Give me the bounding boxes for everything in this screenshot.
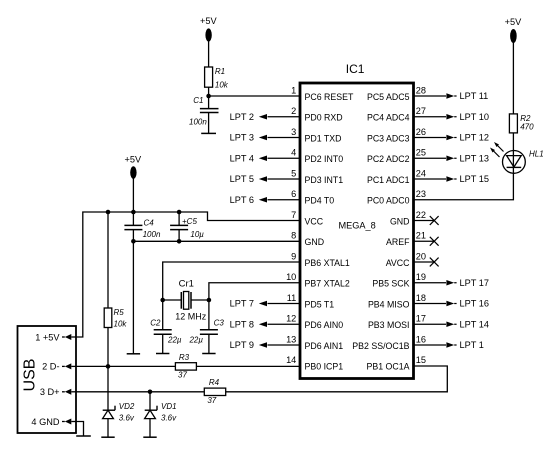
wire C5 to GND bus	[178, 230, 180, 242]
svg-text:GND: GND	[390, 216, 410, 226]
svg-text:PC0 ADC0: PC0 ADC0	[367, 196, 410, 206]
resistor R1	[205, 67, 213, 87]
svg-text:C4: C4	[144, 218, 155, 227]
node VCC bus / R5 junction	[106, 210, 111, 215]
svg-text:LPT 9: LPT 9	[230, 340, 254, 350]
svg-text:11: 11	[287, 293, 297, 303]
svg-text:PD4 T0: PD4 T0	[305, 196, 335, 206]
wire R4 to pin 15 (under IC)	[226, 366, 448, 392]
svg-text:PD0 RXD: PD0 RXD	[305, 113, 343, 123]
svg-text:10k: 10k	[114, 320, 128, 329]
svg-text:R4: R4	[209, 378, 220, 387]
svg-text:21: 21	[416, 231, 426, 241]
svg-text:PD6 AIN1: PD6 AIN1	[305, 341, 344, 351]
svg-text:6: 6	[291, 189, 296, 199]
svg-text:18: 18	[416, 293, 426, 303]
node GND bus / C4 junction	[131, 239, 136, 244]
svg-text:4 GND: 4 GND	[31, 417, 59, 427]
power +5V terminal (top right)	[505, 17, 522, 43]
svg-text:LPT 12: LPT 12	[460, 133, 489, 143]
wire GND bus drop to ground	[132, 241, 134, 353]
svg-text:PC6 RESET: PC6 RESET	[305, 92, 355, 102]
svg-text:LPT 14: LPT 14	[460, 319, 489, 329]
svg-text:5: 5	[291, 168, 296, 178]
power +5V terminal (middle)	[124, 155, 141, 179]
svg-text:PD3 INT1: PD3 INT1	[305, 175, 344, 185]
svg-text:22µ: 22µ	[188, 335, 203, 344]
wire D line to zener VD1	[149, 392, 151, 410]
pin 21 no-connect stub and X	[414, 237, 439, 246]
svg-text:2 D-: 2 D-	[42, 362, 59, 372]
svg-text:LPT 5: LPT 5	[230, 174, 254, 184]
svg-text:17: 17	[416, 314, 426, 324]
svg-text:26: 26	[416, 127, 426, 137]
wire pin 19 to LPT 17 with arrow	[414, 280, 457, 286]
svg-text:23: 23	[416, 189, 426, 199]
svg-text:37: 37	[207, 396, 216, 405]
svg-text:3: 3	[291, 127, 296, 137]
wire GND bus to pin 8	[133, 240, 300, 242]
wire VCC bus to R5	[107, 212, 109, 308]
wire pin 26 to LPT 12 with arrow	[414, 135, 457, 141]
svg-text:PC1 ADC1: PC1 ADC1	[367, 175, 410, 185]
svg-text:C2: C2	[150, 319, 161, 328]
wire node to C1	[208, 96, 210, 108]
svg-text:22: 22	[416, 210, 426, 220]
svg-text:PD2 INT0: PD2 INT0	[305, 154, 344, 164]
svg-text:PC5 ADC5: PC5 ADC5	[367, 92, 410, 102]
wire C1 to ground	[208, 113, 210, 134]
capacitor C2	[154, 330, 172, 334]
svg-text:R3: R3	[179, 353, 190, 362]
ground (GND bus)	[127, 353, 140, 355]
svg-text:VCC: VCC	[305, 216, 324, 226]
node D+ / VD1 junction	[148, 390, 153, 395]
wire +5V terminal down to VCC bus	[132, 179, 134, 213]
USB pin arrow 1 +5V	[62, 334, 76, 340]
USB pin arrow 4 GND	[62, 419, 76, 425]
wire pin 9 to crystal left node	[163, 262, 300, 300]
wire +5V to R1	[208, 41, 210, 67]
svg-text:PB2 SS/OC1B: PB2 SS/OC1B	[352, 341, 409, 351]
svg-text:LPT 16: LPT 16	[460, 299, 489, 309]
resistor R5	[104, 308, 112, 328]
svg-text:10: 10	[286, 272, 296, 282]
wire pin 13 to LPT 9 with arrow	[259, 342, 300, 348]
wire LED to pin 23	[414, 173, 514, 199]
svg-text:LPT 13: LPT 13	[460, 153, 489, 163]
svg-text:PB6 XTAL1: PB6 XTAL1	[305, 258, 350, 268]
svg-text:+5V: +5V	[505, 17, 522, 27]
svg-text:8: 8	[291, 231, 296, 241]
svg-text:16: 16	[416, 334, 426, 344]
svg-text:25: 25	[416, 148, 426, 158]
ground (C1)	[201, 132, 216, 134]
svg-text:PB3 MOSI: PB3 MOSI	[368, 320, 410, 330]
node GND bus / C5 junction	[177, 239, 182, 244]
LED HL1	[490, 142, 525, 173]
svg-text:AVCC: AVCC	[386, 258, 410, 268]
svg-text:LPT 8: LPT 8	[230, 319, 254, 329]
svg-text:2: 2	[291, 106, 296, 116]
wire pin 11 to LPT 7 with arrow	[259, 301, 300, 307]
svg-text:R2: R2	[520, 114, 531, 123]
ground (USB GND)	[76, 435, 91, 437]
power +5V terminal (top left)	[200, 16, 217, 42]
svg-text:PB7 XTAL2: PB7 XTAL2	[305, 279, 350, 289]
ground (C3)	[202, 353, 215, 355]
resistor R4	[204, 388, 225, 395]
svg-text:MEGA_8: MEGA_8	[339, 221, 376, 231]
svg-text:20: 20	[416, 251, 426, 261]
pin 20 no-connect stub and X	[414, 258, 439, 267]
resistor R2	[509, 114, 517, 133]
zener diode VD1	[145, 406, 157, 419]
svg-text:LPT 15: LPT 15	[460, 174, 489, 184]
node VCC bus / +5V / C4 junction	[131, 210, 136, 215]
svg-text:12: 12	[286, 314, 296, 324]
wire zener VD2 to ground	[107, 419, 109, 437]
svg-text:PD1 TXD: PD1 TXD	[305, 133, 342, 143]
svg-text:VD2: VD2	[119, 402, 135, 411]
svg-text:+5V: +5V	[124, 155, 141, 165]
svg-text:PC4 ADC4: PC4 ADC4	[367, 113, 410, 123]
crystal Cr1	[163, 292, 209, 310]
svg-text:PB1 OC1A: PB1 OC1A	[366, 362, 409, 372]
svg-text:7: 7	[291, 210, 296, 220]
svg-text:C1: C1	[193, 96, 203, 105]
capacitor C5 (polarized)	[170, 225, 188, 229]
svg-text:LPT 6: LPT 6	[230, 195, 254, 205]
wire bus to C5	[178, 212, 180, 225]
capacitor C3	[200, 330, 218, 334]
svg-text:HL1: HL1	[529, 150, 544, 159]
svg-text:PC3 ADC3: PC3 ADC3	[367, 133, 410, 143]
wire pin 16 to LPT 1 with arrow	[414, 342, 457, 348]
svg-text:LPT 10: LPT 10	[460, 112, 489, 122]
wire R5 to D- line	[107, 328, 109, 367]
svg-text:LPT 3: LPT 3	[230, 133, 254, 143]
svg-text:100n: 100n	[189, 118, 207, 127]
svg-text:GND: GND	[305, 237, 325, 247]
svg-text:R5: R5	[114, 308, 125, 317]
wire pin 3 to LPT 3 with arrow	[259, 135, 300, 141]
svg-text:3.6v: 3.6v	[161, 414, 177, 423]
svg-text:3.6v: 3.6v	[119, 414, 135, 423]
wire +5V to R2	[512, 43, 514, 114]
wire pin 17 to LPT 14 with arrow	[414, 321, 457, 327]
node crystal right junction	[207, 298, 212, 303]
svg-text:12 MHz: 12 MHz	[175, 311, 207, 321]
svg-text:9: 9	[291, 251, 296, 261]
svg-text:470: 470	[520, 123, 534, 132]
wire pin 28 to LPT 11 with arrow	[414, 93, 457, 99]
svg-text:27: 27	[416, 106, 426, 116]
svg-text:LPT 2: LPT 2	[230, 112, 254, 122]
svg-text:PB4 MISO: PB4 MISO	[368, 299, 410, 309]
svg-text:100n: 100n	[143, 230, 161, 239]
node VCC bus / C5 junction	[177, 210, 182, 215]
node D- / R5 / VD2 junction	[106, 364, 111, 369]
capacitor C1	[200, 109, 219, 113]
svg-text:15: 15	[416, 355, 426, 365]
wire pin 10 to crystal right node	[209, 283, 300, 300]
svg-text:Cr1: Cr1	[179, 279, 194, 290]
svg-text:+5V: +5V	[200, 16, 217, 26]
wire D+ net: USB pin 3 to R4	[76, 391, 204, 393]
ground (VD1)	[143, 436, 156, 438]
wire pin 4 to LPT 4 with arrow	[259, 155, 300, 161]
svg-text:LPT 11: LPT 11	[460, 91, 489, 101]
svg-text:R1: R1	[215, 67, 225, 76]
svg-text:1 +5V: 1 +5V	[35, 332, 60, 342]
svg-text:PD6 AIN0: PD6 AIN0	[305, 320, 344, 330]
svg-text:LPT 1: LPT 1	[460, 340, 484, 350]
svg-text:22µ: 22µ	[167, 335, 182, 344]
svg-text:28: 28	[416, 85, 426, 95]
IC IC1 MEGA_8 body	[300, 83, 414, 379]
svg-text:PC2 ADC2: PC2 ADC2	[367, 154, 410, 164]
wire USB pin 4 GND to ground	[76, 422, 84, 436]
wire pin 5 to LPT 5 with arrow	[259, 176, 300, 182]
svg-text:+C5: +C5	[182, 217, 197, 226]
svg-text:C3: C3	[214, 319, 225, 328]
wire VCC net: USB +5V up and across to pin 7	[76, 212, 300, 337]
svg-text:LPT 17: LPT 17	[460, 278, 489, 288]
node crystal left junction	[160, 298, 165, 303]
wire pin 25 to LPT 13 with arrow	[414, 155, 457, 161]
pin 22 no-connect stub and X	[414, 216, 439, 225]
wire R3 to pin 14	[196, 365, 300, 367]
wire pin 6 to LPT 6 with arrow	[259, 197, 300, 203]
wire bus to C4	[132, 212, 134, 225]
wire R2 to LED	[512, 133, 514, 151]
connector USB body	[18, 326, 77, 433]
wire R1 to node	[208, 87, 210, 96]
svg-text:USB: USB	[22, 359, 39, 392]
ground (VD2)	[101, 436, 114, 438]
svg-text:LPT 7: LPT 7	[230, 299, 254, 309]
svg-text:24: 24	[416, 168, 426, 178]
svg-text:37: 37	[178, 371, 187, 380]
wire pin 2 to LPT 2 with arrow	[259, 114, 300, 120]
wire C4 to GND bus	[132, 230, 134, 242]
svg-text:1: 1	[291, 85, 296, 95]
resistor R3	[175, 363, 196, 370]
USB pin arrow 2 D-	[62, 363, 76, 369]
wire crystal left to C2	[162, 300, 164, 330]
wire crystal right to C3	[208, 300, 210, 330]
svg-text:10µ: 10µ	[190, 230, 204, 239]
svg-text:13: 13	[286, 334, 296, 344]
wire pin 24 to LPT 15 with arrow	[414, 176, 457, 182]
svg-text:AREF: AREF	[386, 237, 410, 247]
wire pin 27 to LPT 10 with arrow	[414, 114, 457, 120]
node R1/C1/pin1 junction	[206, 94, 211, 99]
wire C2 to ground	[162, 334, 164, 353]
svg-text:VD1: VD1	[161, 402, 177, 411]
svg-text:IC1: IC1	[346, 62, 365, 76]
wire pin 12 to LPT 8 with arrow	[259, 321, 300, 327]
svg-text:PB0 ICP1: PB0 ICP1	[305, 362, 344, 372]
svg-text:PB5 SCK: PB5 SCK	[372, 279, 409, 289]
ground (C2)	[156, 353, 169, 355]
svg-text:PD5 T1: PD5 T1	[305, 299, 335, 309]
wire node to pin 1	[209, 95, 300, 97]
wire pin 18 to LPT 16 with arrow	[414, 301, 457, 307]
svg-text:3 D+: 3 D+	[40, 387, 60, 397]
wire zener VD1 to ground	[149, 419, 151, 437]
wire C3 to ground	[208, 334, 210, 353]
svg-text:19: 19	[416, 272, 426, 282]
USB pin arrow 3 D+	[62, 389, 76, 395]
zener diode VD2	[103, 406, 115, 419]
svg-text:14: 14	[286, 355, 296, 365]
wire D- net: USB pin 2 to R3	[76, 365, 175, 367]
capacitor C4	[124, 225, 142, 229]
svg-text:LPT 4: LPT 4	[230, 153, 254, 163]
wire D line to zener VD2	[107, 366, 109, 410]
svg-text:4: 4	[291, 148, 296, 158]
svg-text:10k: 10k	[215, 80, 229, 89]
